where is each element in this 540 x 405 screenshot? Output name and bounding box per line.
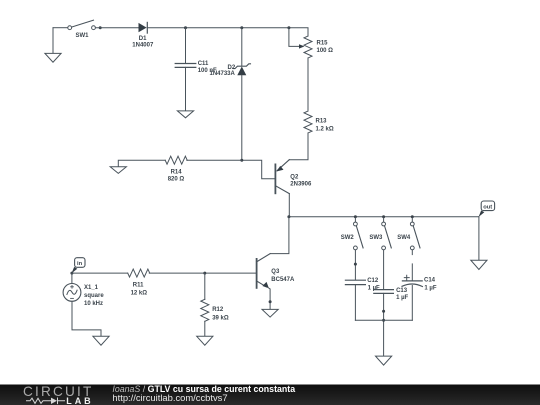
svg-text:D1: D1 xyxy=(139,36,147,42)
switch SW2 xyxy=(354,218,364,250)
zener diode D2 xyxy=(233,64,250,75)
wire: SW1 left terminal to ground corner xyxy=(53,27,68,29)
svg-text:1N4007: 1N4007 xyxy=(132,43,154,49)
node bus SW3 xyxy=(382,215,385,218)
ground (left of R14) xyxy=(110,167,126,174)
svg-text:R12: R12 xyxy=(212,307,224,313)
wire: Q3 emitter to ground xyxy=(269,288,270,309)
resistor R15 (rheostat) xyxy=(304,36,312,58)
svg-text:1 µF: 1 µF xyxy=(396,295,408,301)
svg-text:39 kΩ: 39 kΩ xyxy=(212,315,229,321)
svg-text:100 Ω: 100 Ω xyxy=(317,48,334,54)
svg-text:http://circuitlab.com/ccbtvs7: http://circuitlab.com/ccbtvs7 xyxy=(112,392,227,403)
svg-text:Q2: Q2 xyxy=(290,174,299,180)
svg-text:1.2 kΩ: 1.2 kΩ xyxy=(316,127,334,133)
wire: SW3 to C13 xyxy=(383,250,385,290)
svg-text:X1_1: X1_1 xyxy=(84,285,99,291)
ground (near SW1) xyxy=(45,53,61,62)
bus wire: collector node to out xyxy=(289,216,479,218)
svg-text:C13: C13 xyxy=(396,288,408,294)
svg-text:2N3906: 2N3906 xyxy=(290,181,312,187)
svg-text:C12: C12 xyxy=(367,278,379,284)
wire: R15 bottom to R13 top xyxy=(307,58,309,110)
capacitor C11 xyxy=(175,64,196,68)
capacitor C14 (polarized) xyxy=(402,281,422,287)
node C13 bottom xyxy=(382,310,385,313)
svg-text:820 Ω: 820 Ω xyxy=(168,177,185,183)
wire: node to R11 xyxy=(72,272,128,274)
svg-text:R13: R13 xyxy=(316,119,328,125)
node in/X1/R11 xyxy=(70,272,73,275)
wire: SW1 to D1 xyxy=(95,27,138,29)
svg-text:1 µF: 1 µF xyxy=(424,285,436,291)
switch SW4 xyxy=(410,218,420,250)
wire: node down to R12 xyxy=(204,273,206,299)
node rail/C13 xyxy=(382,319,385,322)
node D2/R14/base junction xyxy=(240,159,243,162)
node dot right of SW1 xyxy=(99,26,102,29)
svg-text:BC547A: BC547A xyxy=(271,277,295,283)
node bus SW4 xyxy=(411,215,414,218)
wire: C13 bottom through rail to ground xyxy=(383,293,385,356)
diode D1 xyxy=(139,22,148,33)
voltage source X1_1 xyxy=(63,273,81,301)
wire: D1 to R15 top corner xyxy=(147,28,308,36)
switch SW3 xyxy=(382,218,392,250)
wire: C14 bottom to rail xyxy=(411,286,413,321)
svg-text:1N4733A: 1N4733A xyxy=(210,71,236,77)
node R11/R12/base xyxy=(203,272,206,275)
svg-text:R15: R15 xyxy=(317,41,329,47)
svg-text:R14: R14 xyxy=(171,169,183,175)
R15 wiper wire xyxy=(289,28,300,47)
node collector/bus xyxy=(287,215,290,218)
svg-text:C14: C14 xyxy=(424,278,436,284)
wire: C11 bottom to ground xyxy=(185,67,187,111)
resistor R11 xyxy=(128,269,150,277)
svg-text:C11: C11 xyxy=(198,61,209,67)
resistor R12 xyxy=(201,299,209,321)
svg-text:LAB: LAB xyxy=(66,396,93,405)
wire: R14 right lead xyxy=(187,159,242,161)
switch SW1 xyxy=(68,20,96,29)
node D2 top xyxy=(240,26,243,29)
wire: C14 top lead xyxy=(411,264,413,281)
svg-text:SW2: SW2 xyxy=(341,235,355,241)
wire: R12 to ground xyxy=(204,321,206,336)
ground (below out) xyxy=(471,260,487,269)
svg-text:D2: D2 xyxy=(228,65,236,71)
out flag xyxy=(479,201,495,217)
ground (below C11) xyxy=(177,111,193,118)
transistor Q3 (NPN) xyxy=(257,254,271,289)
R15 wiper arrow xyxy=(299,44,305,48)
logo waveform xyxy=(26,398,65,405)
wire: out node down to ground xyxy=(478,217,480,261)
wire: ground stem below SW1 xyxy=(52,28,54,54)
svg-text:SW3: SW3 xyxy=(369,235,383,241)
in flag xyxy=(72,258,86,274)
wire: Q3 collector to bus node xyxy=(270,217,289,254)
transistor Q2 (PNP) xyxy=(275,160,289,194)
wire: X1 bottom to ground xyxy=(72,301,101,336)
node bus SW2 xyxy=(354,215,357,218)
wire: Q2 collector to bus xyxy=(288,194,290,217)
node R15 wiper branch xyxy=(287,26,290,29)
ground (below Q3) xyxy=(262,309,278,317)
svg-text:SW1: SW1 xyxy=(76,33,90,39)
svg-text:out: out xyxy=(483,204,492,210)
wire: D2 anode down to R14 node xyxy=(241,75,243,160)
wire: C12 bottom to bottom rail xyxy=(354,285,356,321)
wire: R14 left lead to ground xyxy=(118,160,165,167)
wire: R13 bottom to Q2 emitter corner xyxy=(289,133,308,160)
resistor R13 xyxy=(304,111,312,133)
svg-text:SW4: SW4 xyxy=(397,235,411,241)
svg-text:12 kΩ: 12 kΩ xyxy=(131,290,148,296)
wire: C11 top stub xyxy=(185,28,187,64)
ground (below C13) xyxy=(376,356,392,365)
bottom rail C12-C14 xyxy=(355,319,412,321)
svg-text:R11: R11 xyxy=(133,282,144,288)
svg-text:in: in xyxy=(77,261,83,267)
wire: R11 to Q3 base xyxy=(149,272,256,274)
footer bar xyxy=(0,385,540,405)
label + polarity xyxy=(404,275,409,280)
wire: SW4 stub xyxy=(411,250,413,255)
ground (below R12) xyxy=(197,336,213,345)
node C12 top xyxy=(354,263,357,266)
node C11 top xyxy=(184,26,187,29)
capacitor C13 xyxy=(374,290,394,294)
resistor R14 xyxy=(165,156,187,164)
wire: SW2 to C12 xyxy=(354,250,356,280)
capacitor C12 xyxy=(345,280,365,284)
wire: D2 cathode stub xyxy=(241,28,243,66)
svg-text:Q3: Q3 xyxy=(271,269,280,275)
node Q3 emitter xyxy=(269,300,272,303)
svg-text:10 kHz: 10 kHz xyxy=(84,301,103,307)
svg-text:square: square xyxy=(84,293,104,299)
ground (below X1) xyxy=(93,336,109,345)
svg-text:1 µF: 1 µF xyxy=(368,286,380,292)
wire: Q2 base lead xyxy=(242,160,276,179)
